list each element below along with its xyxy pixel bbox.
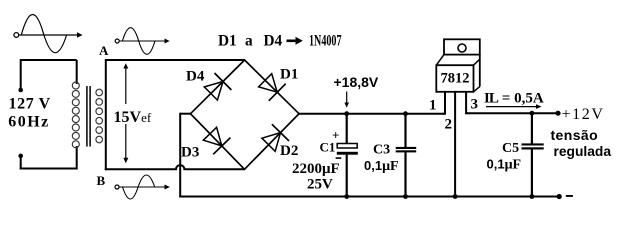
svg-text:+18,8V: +18,8V xyxy=(334,74,379,90)
output terminal dot +12V xyxy=(555,111,560,116)
capacitor C3 xyxy=(396,114,417,198)
transformer T1 primary winding xyxy=(72,82,79,148)
svg-text:2200μF: 2200μF xyxy=(292,161,340,177)
transformer T1 secondary winding xyxy=(96,89,103,143)
svg-text:A: A xyxy=(99,43,109,58)
diode D2 (bottom corner to right corner) xyxy=(262,124,289,151)
svg-text:C1: C1 xyxy=(320,140,336,155)
arrow from +18,8V label to rail xyxy=(344,92,349,108)
svg-text:60Hz: 60Hz xyxy=(8,114,50,131)
svg-text:1N4007: 1N4007 xyxy=(309,33,342,50)
regulator pin 1 lead xyxy=(443,92,445,114)
svg-text:+12V: +12V xyxy=(562,106,605,123)
svg-text:2: 2 xyxy=(445,117,453,133)
regulator pin 2 lead xyxy=(454,92,456,197)
svg-text:regulada: regulada xyxy=(554,144,612,159)
svg-text:D3: D3 xyxy=(181,145,199,161)
junction dot C3 bottom xyxy=(403,194,408,199)
junction dot pin 2 ground xyxy=(453,194,458,199)
minus terminal mark xyxy=(566,195,573,197)
svg-text:D1aD4: D1aD4 xyxy=(218,33,283,50)
current arrow IL xyxy=(486,104,542,109)
wire: primary loop top xyxy=(21,59,77,61)
svg-text:IL = 0,5A: IL = 0,5A xyxy=(484,91,544,107)
bridge rectifier diamond wires xyxy=(191,60,300,169)
wire: primary loop bottom xyxy=(20,168,77,170)
wire: primary loop left upper + AC terminal dot xyxy=(18,59,23,92)
svg-text:tensão: tensão xyxy=(551,127,599,143)
svg-text:3: 3 xyxy=(471,97,479,113)
svg-text:15Vef: 15Vef xyxy=(114,109,152,126)
svg-text:D4: D4 xyxy=(186,69,205,85)
AC waveform symbol at node B (inverted) xyxy=(115,175,170,199)
svg-text:B: B xyxy=(97,173,106,188)
transformer T1 primary lead top xyxy=(76,60,78,84)
diode D4 (left corner to top corner) xyxy=(204,73,231,100)
junction dot at C5 top xyxy=(530,111,535,116)
ground rail end terminal dot xyxy=(557,194,562,199)
diode D3 (left corner to bottom corner) xyxy=(203,127,230,154)
wire: top rail from A to bridge top corner xyxy=(106,59,245,61)
measurement arrow 15Vef (double headed) xyxy=(123,63,128,163)
diode D1 (top corner to right corner) xyxy=(259,74,286,101)
transformer T1 primary lead bottom xyxy=(76,146,78,170)
wire: secondary vertical (A to B side) xyxy=(105,59,107,170)
AC waveform symbol at node A xyxy=(115,28,169,55)
AC mains source symbol (sine wave with arrow) xyxy=(14,15,83,53)
junction dot C5 bottom xyxy=(530,194,535,199)
junction dot C1 bottom xyxy=(344,194,349,199)
capacitor C5 xyxy=(522,113,544,197)
svg-text:25V: 25V xyxy=(307,177,333,193)
svg-text:C3: C3 xyxy=(373,143,390,158)
junction dot at C1 top xyxy=(344,111,349,116)
label D1 a D4 -> 1N4007 xyxy=(218,33,342,50)
svg-text:127 V: 127 V xyxy=(9,96,51,113)
regulator pin 3 lead xyxy=(466,92,468,113)
svg-text:C5: C5 xyxy=(502,141,519,156)
svg-text:1: 1 xyxy=(429,98,437,114)
ground rail xyxy=(179,196,559,198)
wire: output rail from pin 3 to +12V terminal xyxy=(466,112,557,114)
C1 minus polarity mark xyxy=(336,157,342,159)
svg-text:0,1μF: 0,1μF xyxy=(364,158,399,174)
svg-text:D1: D1 xyxy=(280,67,298,83)
svg-text:D2: D2 xyxy=(280,143,298,159)
wire: bridge left corner stub to ground drop xyxy=(180,113,190,115)
wire: primary loop left lower + AC terminal dot xyxy=(18,154,23,170)
wire: B to bridge bottom corner (with hop over ground wire) xyxy=(105,165,245,169)
junction dot at C3 top xyxy=(403,111,408,116)
capacitor C1 (electrolytic) xyxy=(337,114,358,198)
svg-text:0,1μF: 0,1μF xyxy=(487,157,522,173)
svg-text:7812: 7812 xyxy=(441,71,470,87)
transformer T1 core xyxy=(87,86,90,147)
regulator U1 7812 (TO-220 package) xyxy=(436,39,480,92)
wire: ground drop vertical xyxy=(179,113,181,198)
wire: DC+ rail from bridge right corner to regulator pin 1 xyxy=(299,113,445,115)
